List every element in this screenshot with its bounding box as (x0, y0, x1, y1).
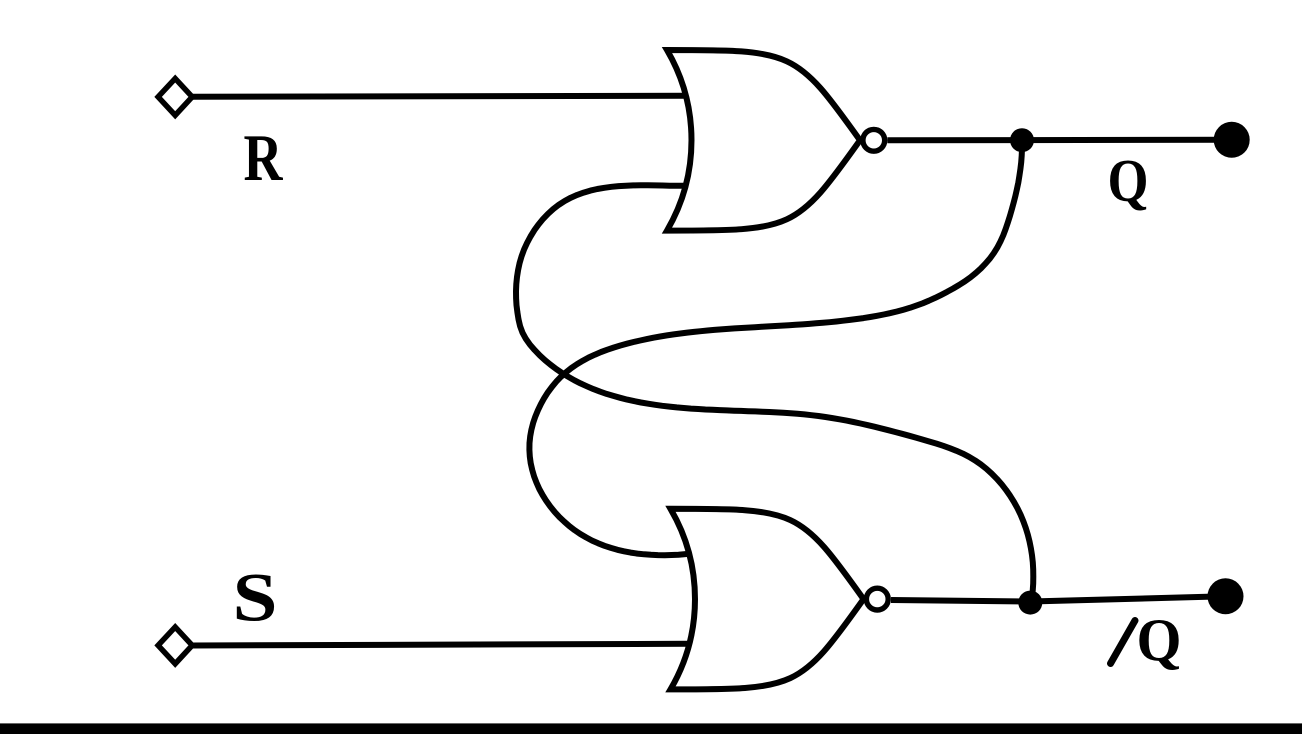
NOR gate U2 body (671, 509, 864, 690)
bottom black bar (0, 723, 1302, 734)
label /Q slash (1111, 621, 1136, 664)
NOR gate U1 body (667, 50, 860, 231)
wire feedback /Q to U1 input (516, 185, 1033, 598)
output terminal dot Q (1214, 122, 1250, 158)
junction node Q (1010, 128, 1034, 152)
junction node /Q (1018, 591, 1042, 615)
svg-text:Q: Q (1108, 148, 1149, 214)
wire U2 output to /Q terminal (891, 596, 1226, 601)
output terminal dot /Q (1208, 578, 1244, 614)
input terminal diamond R (158, 79, 192, 116)
NOR gate U1 output bubble (863, 129, 885, 151)
NOR gate U2 output bubble (866, 588, 888, 610)
wire S input to gate U2 (192, 644, 690, 646)
input terminal diamond S (158, 627, 192, 664)
svg-text:Q: Q (1137, 607, 1182, 673)
svg-text:R: R (244, 121, 283, 195)
wire feedback Q to U2 input (529, 142, 1022, 555)
wire R input to gate U1 (193, 93, 688, 100)
wire U1 output to Q terminal (887, 137, 1231, 144)
svg-text:S: S (233, 560, 278, 636)
